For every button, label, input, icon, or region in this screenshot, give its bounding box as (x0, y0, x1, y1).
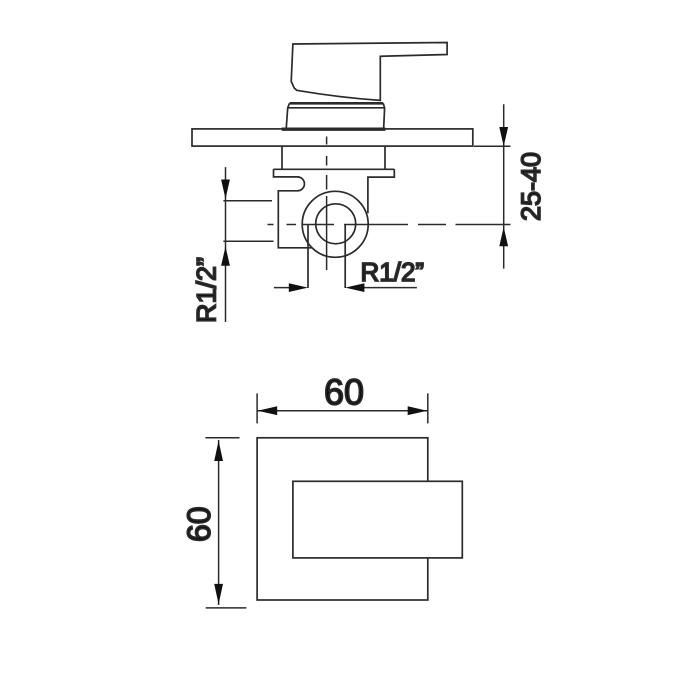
top 60 dimension line (257, 410, 428, 412)
vertical centerline (dash-dot) (326, 137, 328, 271)
body neck below plate (282, 147, 385, 170)
top 60 extension line left (256, 393, 258, 423)
handle base cap (286, 103, 384, 127)
flange right and body right edge (368, 169, 394, 213)
25-40 dimension line (503, 104, 505, 268)
bottom pipe right edge (344, 225, 346, 288)
top 60 arrow left (258, 406, 278, 415)
svg-text:25-40: 25-40 (516, 152, 546, 221)
horizontal centerline (dash-dot) (268, 224, 511, 226)
handle lever (side view) (291, 43, 447, 101)
left 60 arrow down (214, 584, 223, 604)
left pipe extension line top (223, 200, 272, 202)
top 60 arrow right (408, 406, 428, 415)
inner circle (side port) (316, 204, 356, 244)
svg-text:R1/2”: R1/2” (361, 257, 425, 287)
left 60 arrow up (214, 441, 223, 461)
left 60 extension line top (205, 437, 239, 439)
top 60 extension line right (427, 393, 429, 423)
svg-text:R1/2”: R1/2” (192, 257, 222, 323)
bottom pipe left edge (307, 225, 309, 288)
bottom R1/2 dimension line left part with right arrow (274, 287, 293, 289)
left R1/2 dimension arrow up (221, 247, 230, 266)
left 60 extension line bottom (206, 607, 247, 609)
handle rectangle (front view) (293, 481, 462, 558)
left R1/2 dimension line (225, 167, 227, 322)
bottom R1/2 dimension line right part with left arrow (360, 287, 417, 289)
svg-text:60: 60 (324, 372, 364, 413)
mounting flange top (274, 168, 395, 170)
handle base cap top line (thick) (290, 102, 384, 105)
wall plate (192, 129, 473, 146)
25-40 extension line (plate bottom prolonged) (474, 145, 511, 147)
svg-text:60: 60 (181, 506, 217, 542)
left 60 dimension line (218, 440, 220, 605)
outer circle (side port boss) (302, 191, 368, 257)
left pipe extension line bottom (223, 240, 273, 242)
base contact thick line (282, 127, 386, 130)
25-40 arrow down (499, 127, 508, 146)
square plate (front view) (257, 438, 428, 600)
25-40 arrow up (499, 227, 508, 246)
flange left with rounded hook (274, 169, 313, 248)
left R1/2 dimension arrow down (221, 180, 230, 199)
